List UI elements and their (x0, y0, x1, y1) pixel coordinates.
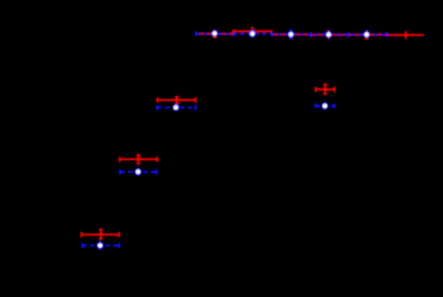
blue vbar P2 (251, 30, 253, 38)
cluster C red marker (137, 157, 141, 161)
top row red error bars (solid) (196, 28, 424, 39)
cluster D blue circle marker (97, 243, 103, 249)
red bottom tick P5 (over) (365, 38, 368, 40)
blue vbar P3 (290, 29, 293, 40)
blue circle marker P4 (326, 32, 332, 38)
blue vbar P4 (328, 30, 330, 40)
red hbar segment P1 (196, 33, 233, 35)
cluster B red error bar (316, 85, 335, 95)
blue vbar P1 (213, 29, 215, 38)
red top tick P4 (over) (328, 31, 330, 32)
red hbar P2 (raised) (233, 30, 270, 32)
cluster B blue circle marker (322, 103, 328, 109)
red vbar P1 (214, 30, 216, 37)
red vbar P6 (405, 31, 407, 39)
red bottom tick P1 (over) (213, 30, 368, 39)
cluster A red marker (175, 98, 179, 102)
red vbar P2 (251, 28, 253, 34)
blue dashed hline top row (196, 34, 387, 35)
red vbar P5 (366, 31, 368, 39)
cluster A blue dashed error bar (157, 104, 195, 111)
blue vbar P5 (366, 30, 368, 40)
cluster A blue circle marker (173, 105, 179, 111)
cluster B red marker (323, 88, 327, 92)
blue circle marker P2 (249, 31, 255, 37)
red hbar P6 (387, 34, 424, 36)
blue circle marker P3 (288, 31, 294, 37)
blue circle marker P5 (364, 32, 370, 38)
red vbar P3 (290, 31, 292, 38)
red top tick P1 (over) (214, 30, 216, 31)
red top tick P5 (over) (366, 31, 368, 32)
cluster D red marker (99, 233, 103, 237)
cluster B blue dashed error bar (316, 102, 335, 110)
red bottom tick P4 (over) (328, 37, 330, 38)
cluster C red error bar (120, 155, 157, 164)
cluster C blue circle marker (135, 169, 141, 175)
cluster D blue dashed error bar (83, 241, 120, 251)
red caps top row (195, 32, 197, 36)
cluster A red error bar (157, 97, 195, 104)
cluster C blue dashed error bar (120, 168, 156, 176)
red hbar segment P3 (272, 34, 311, 36)
cluster D red error bar (82, 230, 120, 239)
red marker dot P6 top row (404, 33, 407, 36)
blue caps top row (195, 32, 197, 36)
red marker dot P2 top row (250, 29, 254, 33)
red bottom tick P3 (over) (290, 36, 292, 39)
top row blue dashed error bars (196, 29, 387, 40)
red hbar segment P4-P5 (310, 34, 387, 36)
blue circle marker P1 (212, 30, 218, 36)
red vbar P4 (328, 31, 330, 39)
